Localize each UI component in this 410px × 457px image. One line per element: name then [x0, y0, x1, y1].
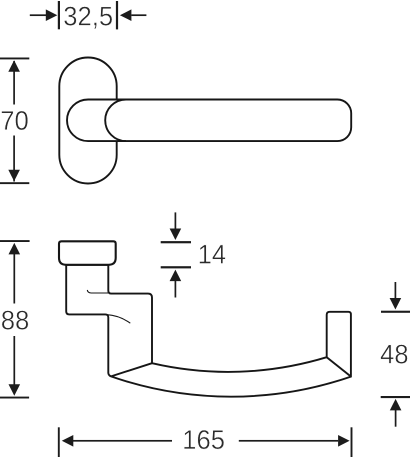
collar / rose cap (side view) — [59, 241, 116, 264]
dim 32,5 tick left — [58, 1, 60, 29]
dim 88 arrow down — [9, 384, 21, 396]
lever silhouette (side view) — [66, 265, 351, 397]
dim 14 tick bottom — [161, 266, 191, 268]
grip left cap arc (top view) — [105, 100, 126, 142]
dim text 32,5 — [64, 7, 112, 29]
dim 32,5 arrow right — [120, 9, 131, 21]
dim 88 arrow up — [9, 243, 21, 255]
lever neck-bottom edge — [111, 363, 152, 376]
dim 14 tick top — [161, 241, 191, 243]
dim 48 arrow up — [390, 399, 402, 411]
dim 14 arrow down — [175, 212, 177, 228]
dim text 88 — [2, 311, 28, 330]
dim 165 arrow left — [62, 435, 74, 447]
dim 70 tick bottom — [0, 182, 29, 184]
dim 88 tick top — [0, 240, 30, 242]
neck fillet thin arc — [106, 315, 130, 324]
dim 70 arrow down — [8, 170, 20, 182]
dim 48 tick bottom — [381, 396, 410, 398]
dim 14 arrow up — [170, 270, 182, 282]
dim 32,5 arrow left — [46, 9, 58, 21]
dim 70 tick top — [0, 58, 29, 60]
neck back edge thin line — [87, 290, 108, 293]
dim 70 arrow up — [8, 60, 20, 72]
dim 48 arrow down — [395, 282, 397, 298]
dim text 14 — [200, 245, 226, 264]
dim 32,5 tick right — [116, 1, 118, 29]
dim text 165 — [184, 430, 224, 449]
dim 88 tick bottom — [0, 397, 29, 399]
dim 165 tick right — [351, 427, 353, 457]
dim text 70 — [2, 111, 28, 130]
dim 48 tick top — [381, 311, 410, 313]
dim 165 tick left — [58, 427, 60, 457]
grip end face edge — [327, 357, 351, 376]
dim 165 arrow right — [338, 435, 350, 447]
handle outline top view (neck cap + grip bar) — [67, 100, 351, 142]
dim text 48 — [381, 345, 408, 364]
oval rosette (top view) — [59, 58, 116, 184]
